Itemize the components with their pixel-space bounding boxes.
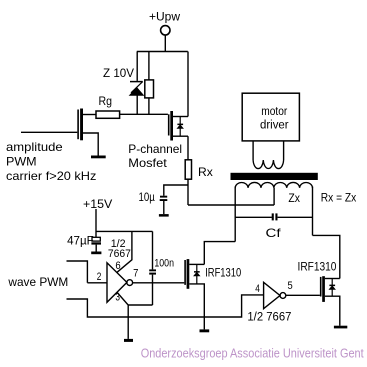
capacitor Cf bbox=[235, 213, 312, 240]
transistor M3 IRF1310 (right) bbox=[298, 259, 340, 325]
wire source to +Upw rail bbox=[187, 52, 189, 117]
svg-text:5: 5 bbox=[288, 280, 293, 292]
capacitor 47uF (electrolytic) bbox=[67, 233, 101, 251]
svg-text:7: 7 bbox=[133, 268, 138, 280]
pin 3 wire bbox=[115, 292, 152, 339]
transformer primary winding bbox=[253, 141, 284, 169]
zener diode Z 10V bbox=[103, 52, 143, 115]
wire secondary center tap bbox=[273, 188, 275, 205]
pin 6 wire bbox=[115, 231, 131, 272]
transistor Q1 (small-signal N-MOSFET, amplitude PWM input) bbox=[77, 109, 98, 156]
svg-text:Cf: Cf bbox=[266, 226, 282, 240]
op-amp U2b inverter 1/2 7667 bbox=[247, 280, 292, 323]
svg-text:wave PWM: wave PWM bbox=[7, 275, 68, 289]
svg-text:100n: 100n bbox=[154, 257, 174, 269]
resistor Rx bbox=[185, 160, 213, 179]
wire secondary left leg bbox=[234, 187, 236, 242]
transistor M2 IRF1310 (left) bbox=[184, 259, 241, 329]
svg-text:driver: driver bbox=[260, 120, 289, 132]
svg-text:3: 3 bbox=[115, 292, 120, 304]
pin 7 output wire bbox=[133, 268, 185, 283]
svg-text:47µF: 47µF bbox=[67, 233, 94, 247]
svg-text:IRF1310: IRF1310 bbox=[298, 259, 337, 273]
svg-text:Rg: Rg bbox=[99, 94, 113, 108]
wire secondary right leg bbox=[312, 187, 314, 236]
svg-text:P-channel: P-channel bbox=[128, 142, 182, 156]
transistor U1 P-channel Mosfet bbox=[168, 111, 188, 141]
capacitor 100n bbox=[149, 231, 174, 305]
transformer core bbox=[231, 173, 318, 180]
svg-text:Rx = Zx: Rx = Zx bbox=[321, 191, 356, 205]
svg-text:2: 2 bbox=[97, 271, 102, 283]
wire drain to Rx bbox=[187, 136, 189, 160]
svg-text:motor: motor bbox=[261, 106, 287, 118]
transformer secondary winding Zx bbox=[235, 182, 312, 204]
wire pin 5 to M3 gate bbox=[286, 294, 320, 296]
svg-text:1/2 7667: 1/2 7667 bbox=[247, 311, 291, 323]
svg-text:7667: 7667 bbox=[108, 248, 131, 260]
wire feed to transformer center tap bbox=[188, 204, 274, 206]
svg-text:Mosfet: Mosfet bbox=[128, 156, 167, 170]
ground (pin 3) bbox=[124, 339, 133, 342]
svg-text:+Upw: +Upw bbox=[149, 10, 180, 24]
ground (M3 source) bbox=[334, 326, 347, 329]
svg-text:carrier f>20 kHz: carrier f>20 kHz bbox=[6, 169, 96, 183]
ground (Q1 source) bbox=[91, 156, 106, 159]
wire top rail bbox=[137, 51, 188, 53]
wire +Upw to rail bbox=[164, 35, 166, 52]
wire wave PWM upper stub bbox=[67, 261, 88, 283]
svg-text:4: 4 bbox=[255, 283, 260, 295]
ground (M2 source) bbox=[200, 329, 210, 332]
svg-text:+15V: +15V bbox=[83, 197, 112, 211]
wire wave PWM lower stub to bottom rail bbox=[67, 295, 264, 317]
wire Rg to gate node bbox=[120, 113, 168, 115]
svg-text:Onderzoeksgroep Associatie Uni: Onderzoeksgroep Associatie Universiteit … bbox=[141, 347, 364, 361]
svg-text:10µ: 10µ bbox=[139, 190, 155, 204]
capacitor 10u bbox=[139, 185, 189, 214]
svg-text:amplitude: amplitude bbox=[6, 140, 63, 154]
op-amp U2a inverter 1/2 7667 bbox=[107, 238, 133, 302]
+15V supply bbox=[83, 197, 153, 238]
svg-text:IRF1310: IRF1310 bbox=[205, 265, 241, 279]
svg-text:6: 6 bbox=[115, 260, 120, 272]
svg-text:Z 10V: Z 10V bbox=[103, 66, 134, 80]
resistor (gate pull-up) bbox=[145, 52, 154, 115]
pin 2 wire bbox=[87, 271, 107, 283]
wire Rx to center-tap feed bbox=[187, 179, 189, 205]
svg-text:Rx: Rx bbox=[198, 165, 213, 179]
ground (47uF) bbox=[91, 252, 101, 255]
ground (10u) bbox=[159, 214, 169, 217]
node +Upw terminal bbox=[149, 10, 180, 36]
wire amplitude PWM input bbox=[21, 131, 77, 133]
op-amp label: amplitude PWM input text bbox=[6, 140, 96, 183]
wire left leg to M2 drain bbox=[204, 242, 235, 265]
svg-text:Zx: Zx bbox=[288, 191, 300, 205]
motor driver box bbox=[242, 93, 299, 141]
svg-text:PWM: PWM bbox=[6, 154, 37, 168]
resistor Rg bbox=[96, 94, 120, 119]
wire right leg jog to M3 drain bbox=[313, 235, 340, 278]
